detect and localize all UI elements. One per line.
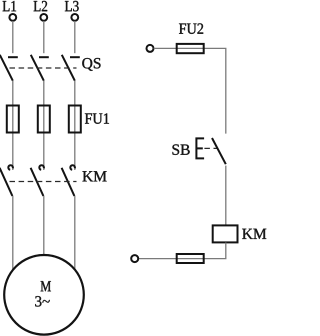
terminal L3 xyxy=(71,14,78,21)
label QS xyxy=(82,58,100,71)
wire QS to FU1 pole 1 xyxy=(12,81,14,170)
SB actuator dashed link xyxy=(204,147,218,149)
wire QS to FU1 pole 3 xyxy=(74,81,76,170)
fuse FU2 xyxy=(177,44,204,53)
wire KM coil to bottom fuse xyxy=(138,243,226,259)
wire L1 to QS xyxy=(12,21,14,53)
wire QS to FU1 pole 2 xyxy=(43,81,45,170)
wire top terminal to SB xyxy=(154,48,226,133)
node L3 xyxy=(65,1,79,11)
node L2 xyxy=(34,1,48,11)
fuse bottom xyxy=(177,254,204,263)
switch QS pole 2 xyxy=(31,55,49,81)
wire KM to motor pole 2 xyxy=(43,196,45,257)
terminal control top xyxy=(147,45,154,52)
coil KM xyxy=(213,225,238,242)
push button SB contact blade xyxy=(212,138,226,164)
push button SB actuator xyxy=(196,138,204,158)
label SB xyxy=(172,144,189,154)
KM linkage dashed line xyxy=(10,181,77,183)
label M xyxy=(41,281,51,291)
terminal control bottom xyxy=(131,255,138,262)
label FU1 xyxy=(85,113,109,123)
terminal L1 xyxy=(9,14,16,21)
fuse FU1 pole 1 xyxy=(7,106,19,133)
wire KM to motor pole 3 xyxy=(74,196,76,271)
QS linkage dashed line xyxy=(10,67,77,69)
switch QS pole 3 xyxy=(62,55,80,81)
motor M xyxy=(4,255,84,335)
label FU2 xyxy=(179,23,203,33)
node L1 xyxy=(3,1,16,11)
fuse FU1 pole 2 xyxy=(38,106,50,133)
terminal L2 xyxy=(40,14,47,21)
contactor KM pole 1 xyxy=(0,165,13,196)
fuse FU1 pole 3 xyxy=(69,106,81,133)
label KM coil xyxy=(242,229,266,239)
contactor KM pole 3 xyxy=(62,165,75,196)
switch QS pole 1 xyxy=(0,55,18,81)
label 3~ xyxy=(35,296,49,306)
wire L2 to QS xyxy=(43,21,45,53)
wire L3 to QS xyxy=(74,21,76,53)
wire SB to KM coil xyxy=(225,166,227,226)
wire KM to motor pole 1 xyxy=(12,196,14,272)
contactor KM pole 2 xyxy=(31,165,44,196)
label KM main contacts xyxy=(82,171,106,181)
